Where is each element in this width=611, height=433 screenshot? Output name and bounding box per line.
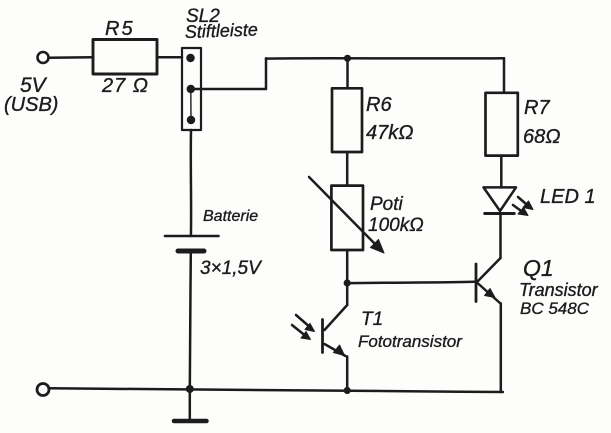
svg-text:3×1,5V: 3×1,5V [200, 258, 263, 279]
node junction T1 emitter to rail [344, 387, 351, 394]
wire top rail [266, 57, 504, 60]
svg-text:Batterie: Batterie [203, 208, 258, 225]
svg-text:R5: R5 [105, 18, 135, 40]
wire terminal to R5 [49, 56, 94, 59]
wire R7 to LED [500, 156, 503, 187]
pin header SL2 [182, 48, 201, 130]
label Stiftleiste [184, 19, 258, 42]
label 5V [20, 74, 48, 97]
wire battery to rail [190, 254, 191, 390]
wire Poti to node [346, 250, 349, 283]
label (USB) [4, 94, 58, 116]
label 3x1.5V [200, 258, 263, 279]
label LED1 [540, 186, 596, 208]
node junction battery to rail [186, 385, 194, 393]
wire R7 drop from rail [503, 58, 506, 93]
node junction base net [344, 279, 351, 286]
light arrows out of LED1 [513, 197, 533, 216]
wire R5 to SL2 [157, 56, 182, 59]
svg-text:LED 1: LED 1 [540, 186, 596, 208]
terminal 5V input [38, 52, 49, 63]
svg-text:(USB): (USB) [4, 94, 58, 116]
resistor R6 [332, 88, 362, 152]
wire SL2 pin2 to top rail [193, 58, 266, 89]
svg-text:Q1: Q1 [523, 255, 554, 281]
svg-text:Transistor: Transistor [519, 280, 599, 300]
svg-text:68Ω: 68Ω [523, 126, 560, 148]
battery wire from SL2 [190, 130, 193, 236]
label R6 [366, 94, 392, 116]
ground [174, 389, 207, 421]
node junction top rail to R6 [344, 55, 351, 62]
svg-text:27 Ω: 27 Ω [101, 75, 149, 97]
label SL2 [186, 6, 220, 27]
svg-text:100kΩ: 100kΩ [368, 215, 424, 236]
wire node to Q1 base [347, 282, 474, 283]
svg-text:Fototransistor: Fototransistor [358, 332, 463, 351]
label Fototransistor [358, 332, 463, 351]
transistor Q1 [476, 258, 501, 392]
resistor R7 [486, 93, 518, 156]
svg-text:47kΩ: 47kΩ [366, 122, 413, 144]
svg-text:Stiftleiste: Stiftleiste [184, 19, 258, 42]
svg-text:Poti: Poti [370, 194, 404, 215]
label 100k ohm [368, 215, 424, 236]
label T1 [361, 309, 383, 330]
label 47k ohm [366, 122, 413, 144]
label Batterie [203, 208, 258, 225]
phototransistor T1 [323, 283, 348, 390]
label BC 548C [520, 299, 590, 318]
svg-text:R6: R6 [366, 94, 392, 116]
svg-text:T1: T1 [361, 309, 383, 330]
wire rail to R6 [346, 58, 349, 88]
label 27 ohm [101, 75, 149, 97]
wire LED to Q1 collector [499, 215, 502, 258]
label Q1 [523, 255, 554, 281]
battery cell [165, 236, 219, 251]
light arrows into T1 [292, 315, 315, 340]
label R5 [105, 18, 135, 40]
label R7 [524, 97, 550, 119]
wire bottom rail [49, 388, 503, 392]
svg-text:BC 548C: BC 548C [520, 299, 590, 318]
label Poti [370, 194, 404, 215]
terminal bottom [37, 384, 49, 396]
potentiometer Poti [309, 177, 384, 253]
LED1 diode [484, 187, 517, 213]
label 68 ohm [523, 126, 560, 148]
label Transistor [519, 280, 599, 300]
svg-text:R7: R7 [524, 97, 550, 119]
resistor R5 [93, 40, 157, 75]
wire R6 to Poti [346, 152, 349, 186]
